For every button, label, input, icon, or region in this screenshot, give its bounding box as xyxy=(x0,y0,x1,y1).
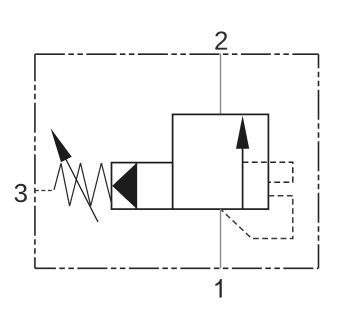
port 2 label xyxy=(215,31,227,49)
port 3 label xyxy=(15,184,27,203)
pilot box xyxy=(112,163,173,210)
wire flow line inside valve xyxy=(242,148,244,210)
enclosure border left edge xyxy=(34,54,36,268)
wire port 1 line xyxy=(220,209,222,268)
wire pilot line B (right loop to bottom node) xyxy=(221,196,293,239)
adjustment arrow shaft xyxy=(65,157,99,223)
poppet triangle xyxy=(112,163,136,208)
wire port 3 dashed pilot line xyxy=(35,190,54,192)
wire pilot line A (from flow line to right loop) xyxy=(243,162,293,182)
enclosure border bottom edge xyxy=(35,267,319,269)
port 1 label xyxy=(215,279,221,298)
enclosure border top edge (phantom dashed) xyxy=(35,53,319,55)
flow arrow head xyxy=(236,116,249,149)
wire port 2 line xyxy=(220,54,222,115)
enclosure border right edge xyxy=(318,54,320,268)
adjustment arrow head xyxy=(51,128,72,162)
pilot box divider line xyxy=(135,163,137,210)
spring xyxy=(54,163,112,206)
valve body main square xyxy=(173,114,269,209)
